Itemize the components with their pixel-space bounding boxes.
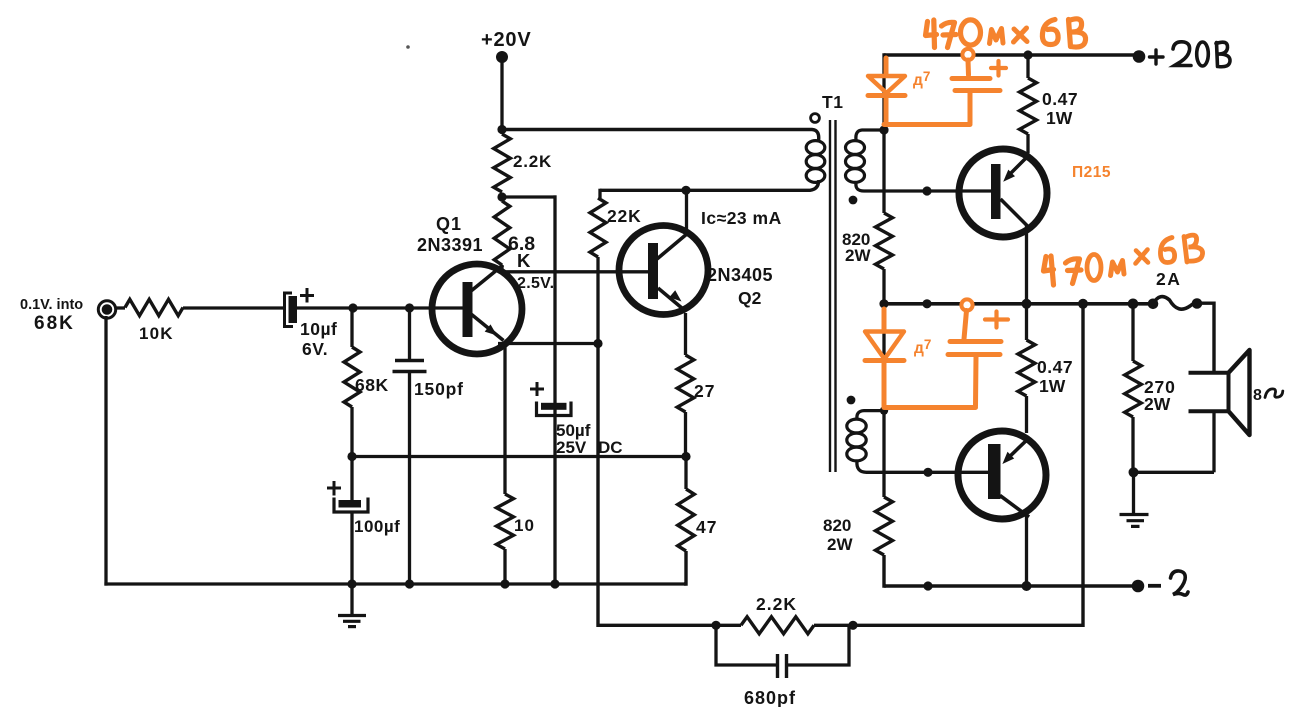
- wire 10 to ground rail: [503, 549, 506, 584]
- svg-text:10K: 10K: [139, 324, 174, 343]
- node speaker-ground junction: [1129, 467, 1139, 477]
- terminal minus dot: [1132, 580, 1145, 593]
- svg-text:2W: 2W: [827, 535, 853, 554]
- resistor 10K (input series): [125, 299, 183, 315]
- wire junction to 820 top: [882, 130, 885, 213]
- svg-text:2.2K: 2.2K: [756, 594, 797, 614]
- resistor 22K (Q2 base): [590, 198, 606, 257]
- wire 2.2K to right junction: [814, 624, 854, 627]
- speaker 8 ohm: [1189, 350, 1250, 435]
- svg-text:DC: DC: [598, 438, 623, 457]
- svg-text:6V.: 6V.: [302, 339, 328, 359]
- resistor 68K (bias): [344, 347, 360, 407]
- wire junction to 68K: [350, 308, 353, 347]
- svg-text:2.2K: 2.2K: [513, 152, 552, 171]
- transistor Q2 2N3405: [619, 226, 708, 315]
- svg-text:8: 8: [1253, 387, 1262, 404]
- node 0.47 top junction: [1023, 50, 1032, 59]
- wire P215 bottom collector down: [1025, 515, 1028, 586]
- label 6.8K: [508, 233, 535, 271]
- handwritten + 20V (Cyrillic): [1150, 42, 1231, 67]
- node output rail left junction: [879, 299, 888, 308]
- wire output rail down to lower winding: [882, 304, 885, 411]
- node secondary-bottom junction: [880, 406, 888, 414]
- node base-68K junction: [348, 303, 357, 312]
- wire base to 150pf: [408, 308, 411, 360]
- wire 150pf to ground rail: [408, 372, 411, 584]
- svg-text:K: K: [517, 250, 531, 271]
- resistor 2.2K (collector load): [494, 134, 511, 192]
- wire top rail to transformer primary: [502, 130, 819, 142]
- svg-text:10µf: 10µf: [300, 319, 337, 339]
- svg-text:150pf: 150pf: [414, 379, 464, 399]
- svg-text:2.5V.: 2.5V.: [517, 275, 554, 292]
- wire speaker bottom feed: [1212, 410, 1215, 472]
- wire 68K to mid rail: [350, 407, 353, 457]
- label 0.47 1W bottom: [1037, 357, 1073, 396]
- svg-text:Ic≈23 mA: Ic≈23 mA: [701, 208, 782, 228]
- wire C 10uf to Q1 base: [297, 306, 464, 309]
- wire 820 to minus rail: [884, 555, 886, 586]
- diode D7 (bottom, orange): [865, 309, 904, 406]
- wire feedback to output rail: [853, 304, 1083, 625]
- svg-text:T1: T1: [822, 92, 843, 112]
- svg-text:10: 10: [514, 516, 535, 535]
- label 50uf 25VDC: [556, 421, 623, 457]
- svg-text:2W: 2W: [845, 246, 871, 265]
- label 820 2W top: [842, 230, 871, 265]
- svg-text:680pf: 680pf: [744, 688, 796, 707]
- label 8 ohm: [1253, 387, 1283, 404]
- capacitor C 100uf electrolytic: [327, 481, 368, 512]
- ground symbol (main): [338, 584, 366, 627]
- wire Q2 collector up: [685, 191, 688, 234]
- wire orange rectifier bottom (bottom): [884, 405, 976, 410]
- wire node to feedback: [598, 344, 716, 626]
- wire fuse to speaker: [1197, 303, 1214, 373]
- label input level: [20, 297, 83, 334]
- transformer T1 core: [830, 120, 836, 472]
- wire mid rail (68K bottom to 47 top): [352, 455, 686, 458]
- svg-text:0.1V. into: 0.1V. into: [20, 297, 83, 313]
- node minus rail junctions: [923, 581, 1031, 591]
- node +20V rail junction: [497, 125, 506, 134]
- node base line dot (top): [922, 186, 931, 195]
- svg-text:Q1: Q1: [436, 214, 462, 234]
- wire minus rail: [884, 584, 1140, 588]
- wire P215 bottom base line: [866, 471, 989, 474]
- svg-text:25V: 25V: [556, 438, 587, 457]
- node base-150pf junction: [405, 303, 414, 312]
- svg-text:0.47: 0.47: [1042, 89, 1078, 109]
- node collector-primary junction: [681, 186, 690, 195]
- wire 270 to junction: [1131, 417, 1134, 473]
- svg-text:2W: 2W: [1144, 394, 1171, 414]
- stray scan speck: [406, 45, 410, 49]
- fuse 2A: [1153, 297, 1197, 310]
- wire 22K to emitter node: [596, 257, 599, 344]
- capacitor 470uF (top, orange): [952, 49, 1006, 123]
- wire Q1 collector junction: [500, 265, 503, 272]
- svg-text:27: 27: [694, 381, 715, 401]
- wire node to 47: [684, 457, 687, 490]
- capacitor 680pf branch left: [716, 625, 778, 665]
- wire down to C 50uf and ground: [553, 195, 556, 584]
- wire junction down crossing base line: [882, 411, 885, 497]
- wire P215 base line: [864, 189, 992, 192]
- wire mid rail to C 100uf: [350, 457, 353, 501]
- svg-text:22K: 22K: [607, 206, 642, 226]
- wire to 2.2K feedback: [716, 624, 741, 627]
- capacitor C 10uf electrolytic: [285, 288, 315, 327]
- handwritten minus 2: [1148, 571, 1188, 595]
- svg-text:2A: 2A: [1156, 269, 1181, 289]
- capacitor 680pf: [778, 654, 787, 678]
- label 270 2W: [1144, 377, 1176, 414]
- svg-text:П215: П215: [1072, 164, 1111, 181]
- wire input to R 10K: [115, 306, 125, 309]
- transistor Q1 2N3391: [432, 264, 522, 354]
- node 27-47 junction: [681, 452, 690, 461]
- phase dot secondary bottom: [847, 396, 856, 405]
- wire left rail from input down: [104, 316, 107, 586]
- transformer primary winding: [806, 141, 825, 183]
- terminal +20V output dot: [1133, 50, 1146, 63]
- resistor 0.47 1W (bottom): [1018, 304, 1035, 396]
- node base line dot (bottom): [923, 468, 932, 477]
- svg-text:68K: 68K: [355, 375, 389, 395]
- resistor 47 (Q2 emitter 2): [678, 489, 695, 551]
- transformer secondary bottom winding: [847, 411, 884, 473]
- wire 27 to node: [684, 412, 687, 457]
- wire +20V down: [500, 57, 503, 130]
- node feedback right junction: [848, 621, 857, 630]
- wire bottom ground rail: [104, 582, 686, 585]
- node ground rail junctions: [347, 579, 559, 588]
- diode D7 (top, orange): [868, 58, 905, 123]
- node 2.2K-6.8K junction: [497, 192, 506, 201]
- capacitor C 50uf electrolytic: [530, 382, 571, 416]
- wire 10K to C 10uf: [183, 306, 285, 309]
- handwritten 470m x 6V (bottom, orange): [1044, 235, 1203, 285]
- node feedback left junction: [711, 621, 720, 630]
- capacitor 470uF (bottom, orange): [948, 299, 1008, 406]
- capacitor 680pf branch right: [787, 625, 850, 665]
- svg-text:2N3405: 2N3405: [707, 265, 773, 285]
- phase dot secondary top: [849, 196, 858, 205]
- wire 0.47 to P215 emitter: [1026, 134, 1029, 153]
- resistor 270 2W: [1125, 304, 1142, 417]
- wire C 100uf to ground rail: [350, 512, 353, 584]
- wire Q1 collector to Q2 base: [501, 270, 649, 273]
- handwritten 470m x 6V (top, orange): [926, 19, 1086, 48]
- svg-text:1W: 1W: [1039, 376, 1066, 396]
- svg-text:47: 47: [696, 517, 717, 537]
- wire 22K top line to primary: [600, 180, 819, 190]
- ground symbol (speaker): [1120, 472, 1149, 526]
- wire top rail: [884, 53, 1140, 57]
- svg-text:820: 820: [823, 516, 851, 535]
- input jack J1 (0.1V into 68K): [98, 301, 115, 318]
- svg-text:Q2: Q2: [738, 288, 762, 308]
- wire 22K corner: [598, 189, 601, 198]
- transistor P215 (bottom output): [958, 431, 1046, 519]
- wire orange rectifier bottom (top): [884, 122, 970, 127]
- wire P215 collector down: [1025, 225, 1028, 304]
- resistor 820 2W (top): [876, 213, 893, 269]
- resistor 2.2K (feedback): [741, 617, 814, 634]
- label 0.47 1W top: [1042, 89, 1078, 128]
- wire top rail corner down: [882, 53, 885, 131]
- node fuse right dot: [1192, 298, 1203, 309]
- node output junctions: [922, 299, 1158, 310]
- svg-text:0.47: 0.47: [1037, 357, 1073, 377]
- wire 47 to ground rail: [684, 551, 686, 584]
- wire 0.47 to P215 bottom emitter: [1025, 396, 1028, 433]
- transistor P215 (top output): [959, 149, 1047, 237]
- capacitor 150pf: [393, 361, 427, 372]
- label 820 2W bottom: [823, 516, 853, 554]
- resistor 10 (Q1 emitter): [497, 494, 514, 549]
- resistor 6.8K (Q1 collector): [494, 201, 510, 265]
- wire junction right: [502, 195, 557, 198]
- transformer secondary top winding: [846, 130, 885, 191]
- wire output rail: [884, 302, 1153, 306]
- wire Q1 emitter down: [503, 344, 506, 495]
- label 10uf 6V: [300, 319, 337, 359]
- terminal +20V: [496, 51, 508, 63]
- node secondary-top junction: [879, 125, 888, 134]
- transformer primary phase ring: [811, 114, 820, 123]
- svg-text:2N3391: 2N3391: [417, 235, 483, 255]
- wire Q1 emitter horizontal: [498, 342, 598, 345]
- svg-text:+20V: +20V: [481, 29, 531, 51]
- resistor 0.47 1W (top): [1020, 55, 1037, 134]
- svg-text:100µf: 100µf: [354, 517, 400, 536]
- wire 820 to output rail: [882, 269, 885, 304]
- node mid-rail left junction: [347, 452, 356, 461]
- wire junction to speaker bottom: [1134, 471, 1215, 474]
- resistor 27 (Q2 emitter): [677, 355, 694, 412]
- node emitter-22K junction: [593, 339, 602, 348]
- wire Q2 emitter down: [684, 313, 687, 355]
- svg-text:1W: 1W: [1046, 108, 1073, 128]
- svg-text:68K: 68K: [34, 313, 75, 334]
- resistor 820 2W (bottom): [876, 497, 893, 555]
